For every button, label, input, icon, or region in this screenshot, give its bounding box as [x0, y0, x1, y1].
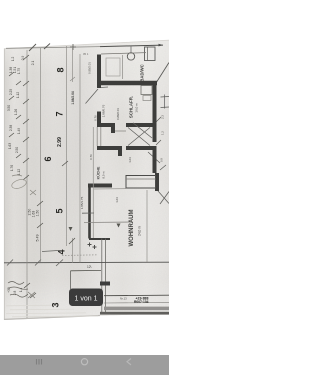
svg-text:1.63: 1.63 [8, 143, 12, 149]
svg-text:5.49: 5.49 [36, 235, 40, 242]
svg-text:WOHNRAUM: WOHNRAUM [129, 210, 135, 247]
svg-text:0.76: 0.76 [94, 115, 98, 121]
svg-text:7: 7 [55, 111, 65, 116]
svg-text:1.2: 1.2 [161, 131, 165, 135]
svg-text:8: 8 [56, 67, 66, 72]
svg-text:1.12: 1.12 [16, 92, 20, 98]
svg-text:3.50: 3.50 [7, 105, 11, 111]
svg-text:3: 3 [51, 302, 61, 307]
svg-text:2.25: 2.25 [9, 89, 13, 95]
svg-text:6: 6 [43, 156, 53, 161]
svg-text:1.49: 1.49 [17, 128, 21, 134]
svg-text:1.64: 1.64 [115, 197, 119, 203]
svg-text:24,0 m: 24,0 m [138, 226, 142, 236]
svg-text:1.88/0.76: 1.88/0.76 [102, 104, 106, 117]
svg-text:Nr.13: Nr.13 [120, 297, 127, 301]
svg-text:16,0 m: 16,0 m [135, 103, 139, 113]
svg-text:1 von 1: 1 von 1 [75, 296, 98, 303]
svg-text:2.50: 2.50 [15, 147, 19, 153]
svg-text:1.85/1.75: 1.85/1.75 [80, 196, 84, 209]
svg-text:1.75: 1.75 [17, 68, 21, 74]
svg-text:1.64: 1.64 [128, 157, 132, 163]
svg-text:05 1: 05 1 [83, 52, 89, 56]
svg-text:5: 5 [55, 208, 65, 213]
svg-text:0.76: 0.76 [89, 154, 93, 160]
svg-text:2.99: 2.99 [57, 137, 63, 147]
svg-text:0.88/2.01: 0.88/2.01 [116, 108, 120, 120]
svg-text:R007·104: R007·104 [134, 300, 149, 304]
svg-text:1.76: 1.76 [10, 165, 14, 171]
svg-text:12\: 12\ [87, 265, 92, 269]
svg-text:1.12: 1.12 [17, 169, 21, 175]
svg-text:1.26: 1.26 [14, 109, 18, 115]
svg-text:8,0 m: 8,0 m [102, 171, 106, 179]
svg-text:2.38: 2.38 [9, 125, 13, 131]
svg-text:0.99/2.01: 0.99/2.01 [88, 62, 92, 74]
svg-text:BAD/WC: BAD/WC [140, 64, 145, 81]
svg-text:SCHLAFR.: SCHLAFR. [129, 96, 134, 118]
svg-text:2.3: 2.3 [161, 115, 165, 119]
svg-text:1.50: 1.50 [36, 210, 40, 217]
svg-text:0.9: 0.9 [160, 158, 164, 162]
svg-text:1.2: 1.2 [11, 57, 15, 62]
svg-text:KÜCHE: KÜCHE [96, 166, 101, 179]
svg-text:4: 4 [57, 249, 67, 254]
svg-text:2.1: 2.1 [31, 61, 35, 66]
svg-text:1.88/2.64: 1.88/2.64 [71, 91, 75, 105]
